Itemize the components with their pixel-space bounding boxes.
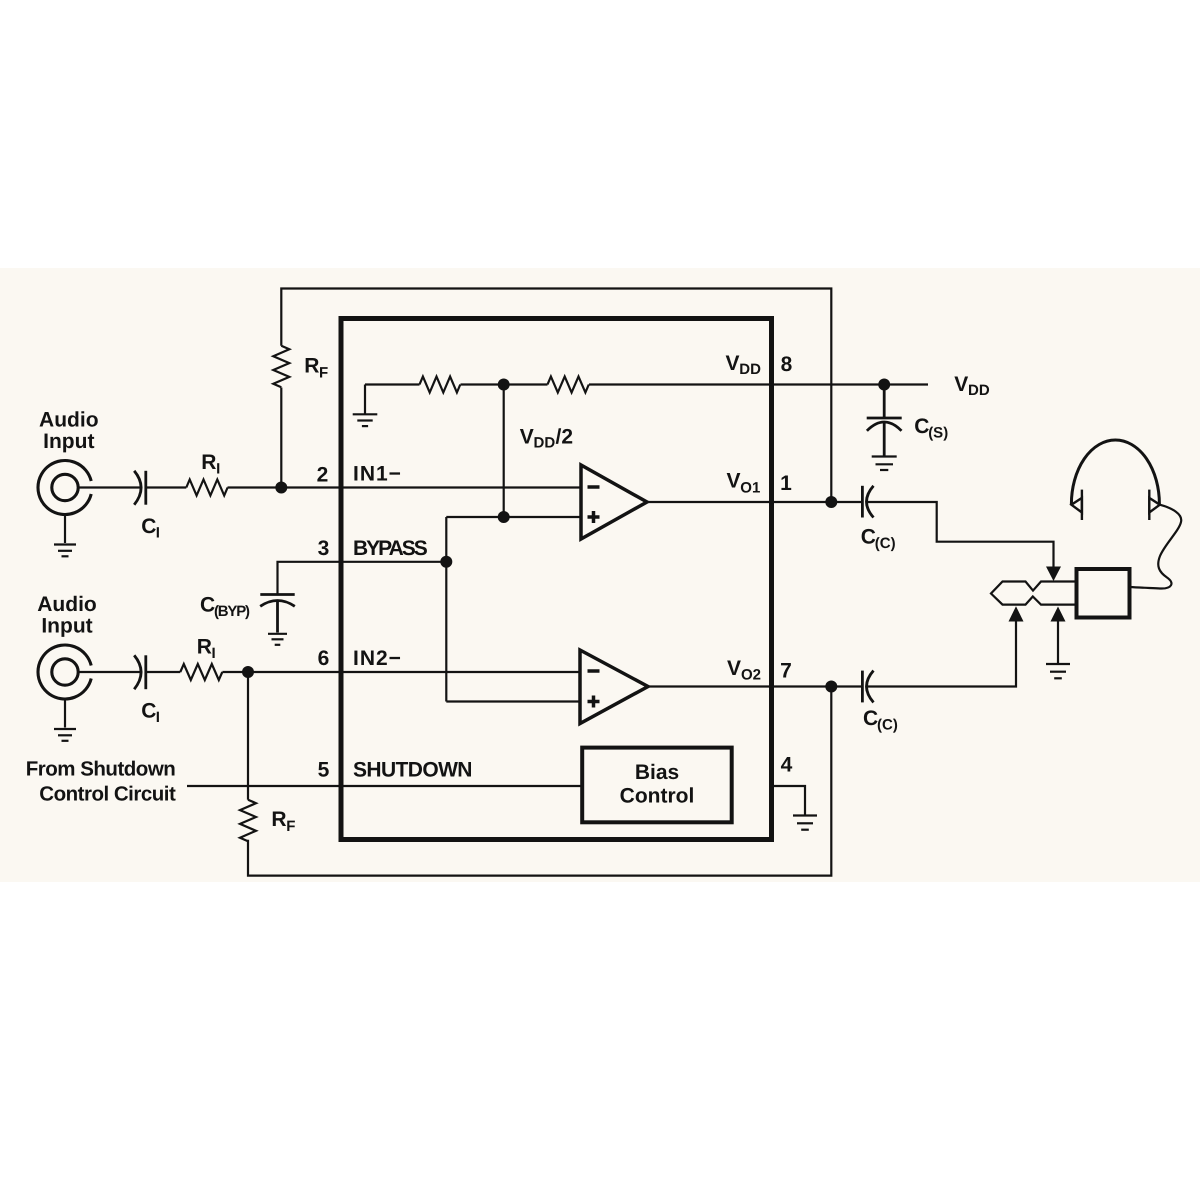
svg-text:C: C: [200, 594, 215, 617]
headphone plug: [991, 582, 1077, 605]
label RF top: [304, 355, 328, 382]
label VO2: [727, 657, 761, 684]
capacitor CC 1: [862, 486, 873, 518]
label CBYP: [200, 594, 250, 621]
svg-text:(BYP): (BYP): [214, 603, 250, 620]
wire RI2 to IN2- pin: [222, 671, 579, 673]
node dot N2: [242, 666, 254, 678]
svg-text:DD: DD: [739, 361, 761, 378]
ground jack: [1046, 664, 1070, 678]
svg-text:R: R: [201, 451, 216, 474]
svg-text:C: C: [914, 415, 929, 438]
resistor RI 2: [180, 664, 222, 680]
svg-text:IN1−: IN1−: [353, 463, 402, 486]
label VDD pin 8 inside: [726, 352, 762, 378]
svg-text:I: I: [156, 525, 160, 542]
wire BYPASS pin 3: [278, 562, 447, 594]
svg-text:/2: /2: [556, 426, 574, 449]
svg-text:(C): (C): [875, 535, 896, 552]
wire + input amp1: [446, 516, 581, 518]
svg-text:V: V: [520, 426, 534, 449]
headphone jack box: [1077, 569, 1130, 618]
svg-text:F: F: [319, 365, 328, 382]
svg-text:R: R: [271, 808, 286, 831]
resistor RF (top): [273, 346, 289, 387]
wire VDD pin 8 row: [589, 383, 928, 385]
wire gnd to R divider 1: [365, 383, 420, 385]
node dot VO1: [825, 496, 837, 508]
svg-text:7: 7: [780, 660, 792, 683]
svg-text:I: I: [156, 709, 160, 726]
node dot + input amp1: [498, 511, 510, 523]
wire bypass vertical to + inputs: [445, 517, 447, 702]
node dot bypass: [440, 556, 452, 568]
text From Shutdown Control Circuit: [26, 757, 176, 805]
label RI 2: [197, 636, 216, 663]
svg-text:5: 5: [318, 759, 330, 782]
arrow into jack ring: [1046, 567, 1061, 582]
headphones cable: [1130, 505, 1181, 589]
label RI 1: [201, 451, 220, 478]
svg-text:(C): (C): [877, 717, 898, 734]
paper band: [0, 268, 1200, 882]
svg-text:O1: O1: [740, 480, 760, 497]
capacitor CC 2: [862, 671, 873, 703]
svg-text:1: 1: [780, 472, 792, 495]
text Audio Input 2: [37, 593, 96, 637]
label CI 2: [141, 700, 160, 727]
ground pin 4: [793, 816, 817, 830]
svg-text:I: I: [212, 645, 216, 662]
resistor RI 1: [186, 480, 227, 496]
resistor RF (bottom): [240, 800, 256, 842]
svg-text:Control: Control: [620, 785, 695, 808]
svg-text:V: V: [726, 352, 740, 375]
svg-text:3: 3: [318, 537, 330, 560]
wire amp1 output VO1: [647, 501, 862, 503]
op-amp U1b: [580, 650, 648, 724]
RCA jack J2: [38, 645, 91, 699]
label RF bottom: [271, 808, 295, 835]
label VO1: [727, 470, 761, 497]
arrow into jack sleeve: [1051, 607, 1066, 622]
node dot divider mid: [498, 379, 510, 391]
arrow into jack tip: [1009, 606, 1024, 621]
svg-text:Bias: Bias: [635, 761, 679, 784]
label CI 1: [141, 515, 160, 542]
text Audio Input 1: [39, 409, 98, 453]
wire CI to RI: [146, 486, 187, 488]
svg-text:4: 4: [781, 754, 793, 777]
svg-text:F: F: [286, 818, 295, 835]
label CS: [914, 415, 948, 442]
capacitor CI 2: [134, 655, 146, 689]
ground under J1: [54, 515, 76, 557]
wire amp2 output VO2: [648, 685, 862, 687]
svg-text:Audio: Audio: [37, 593, 96, 616]
wire + input amp2: [446, 700, 580, 702]
svg-text:C: C: [861, 526, 876, 549]
svg-text:V: V: [954, 373, 968, 396]
wire VDD/2 down to + input: [503, 385, 505, 518]
svg-text:Control Circuit: Control Circuit: [39, 783, 176, 806]
svg-text:SHUTDOWN: SHUTDOWN: [353, 759, 472, 782]
capacitor CI 1: [134, 471, 146, 505]
svg-text:R: R: [304, 355, 319, 378]
svg-text:Input: Input: [43, 430, 94, 453]
internal ground (VDD/2 divider): [353, 385, 378, 427]
wire bottom feedback loop 2: [248, 687, 831, 876]
label VDD/2: [520, 426, 573, 452]
wire between divider resistors: [461, 383, 548, 385]
wire pin 4 stub: [772, 786, 806, 815]
wire feedback 2 vertical from node N2: [247, 672, 249, 800]
IC U1 box: [341, 319, 772, 840]
wire RI to IN1- pin (through node): [228, 486, 582, 488]
svg-text:V: V: [727, 657, 741, 680]
node dot VDD ext: [878, 379, 890, 391]
headphones headband: [1071, 440, 1159, 504]
ground CS: [872, 457, 897, 471]
resistor divider R2 (internal): [548, 377, 589, 393]
wire jack sleeve to ground: [1057, 622, 1059, 664]
node dot N1: [275, 482, 287, 494]
wire SHUTDOWN pin 5: [187, 785, 582, 787]
capacitor CBYP: [260, 595, 295, 633]
node dot VO2: [825, 681, 837, 693]
wire CI2 to RI2: [146, 671, 181, 673]
label CC 1: [861, 526, 896, 553]
svg-text:I: I: [216, 460, 220, 477]
svg-text:C: C: [141, 515, 156, 538]
svg-text:IN2−: IN2−: [353, 647, 402, 670]
wire CC2 to jack tip: [867, 622, 1016, 687]
resistor divider R1 (internal): [420, 377, 461, 393]
label CC 2: [863, 707, 898, 734]
wire top feedback loop 1: [281, 289, 831, 503]
wire CC1 to jack: [867, 502, 1054, 567]
capacitor CS: [867, 385, 902, 457]
wire RF bottom lead: [280, 388, 282, 488]
svg-text:DD: DD: [534, 435, 556, 452]
headphones right driver: [1149, 490, 1160, 520]
ground under J2: [54, 699, 76, 741]
bias control box: [582, 748, 732, 823]
svg-text:BYPASS: BYPASS: [353, 537, 428, 560]
wire J2 to CI2: [78, 671, 140, 673]
op-amp U1a: [581, 465, 647, 539]
svg-text:DD: DD: [968, 382, 990, 399]
svg-text:Audio: Audio: [39, 409, 98, 432]
svg-text:8: 8: [781, 353, 793, 376]
svg-text:2: 2: [317, 464, 329, 487]
svg-text:(S): (S): [928, 425, 948, 442]
svg-text:6: 6: [318, 647, 330, 670]
ground CBYP: [268, 634, 287, 645]
svg-text:C: C: [863, 707, 878, 730]
svg-text:From Shutdown: From Shutdown: [26, 757, 176, 780]
wire J1 to CI: [78, 486, 140, 488]
headphones left driver: [1071, 490, 1082, 520]
svg-text:V: V: [727, 470, 741, 493]
RCA jack J1: [38, 461, 91, 515]
label VDD right: [954, 373, 990, 399]
svg-text:C: C: [141, 700, 156, 723]
text Bias Control: [620, 761, 695, 808]
svg-text:R: R: [197, 636, 212, 659]
svg-text:O2: O2: [741, 667, 761, 684]
svg-text:Input: Input: [41, 614, 92, 637]
